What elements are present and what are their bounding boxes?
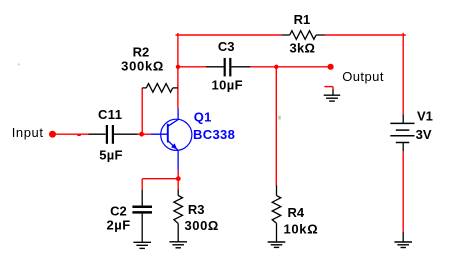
svg-text:3kΩ: 3kΩ bbox=[290, 41, 316, 56]
svg-text:Q1: Q1 bbox=[194, 109, 212, 124]
svg-text:R3: R3 bbox=[188, 202, 205, 217]
svg-text:5µF: 5µF bbox=[99, 147, 123, 162]
svg-text:C2: C2 bbox=[110, 204, 127, 219]
svg-text:300Ω: 300Ω bbox=[184, 218, 219, 233]
svg-text:Output: Output bbox=[342, 69, 384, 84]
svg-text:BC338: BC338 bbox=[193, 127, 235, 142]
svg-text:V1: V1 bbox=[417, 108, 433, 123]
svg-text:C3: C3 bbox=[218, 39, 235, 54]
svg-text:10kΩ: 10kΩ bbox=[283, 222, 318, 237]
svg-text:300kΩ: 300kΩ bbox=[121, 59, 164, 74]
svg-text:R4: R4 bbox=[287, 205, 304, 220]
svg-text:3V: 3V bbox=[416, 127, 432, 142]
svg-text:10µF: 10µF bbox=[211, 77, 243, 92]
svg-text:R1: R1 bbox=[294, 12, 311, 27]
svg-text:2µF: 2µF bbox=[107, 218, 131, 233]
svg-text:R2: R2 bbox=[133, 45, 150, 60]
svg-text:C11: C11 bbox=[98, 107, 122, 122]
svg-text:Input: Input bbox=[12, 125, 44, 140]
